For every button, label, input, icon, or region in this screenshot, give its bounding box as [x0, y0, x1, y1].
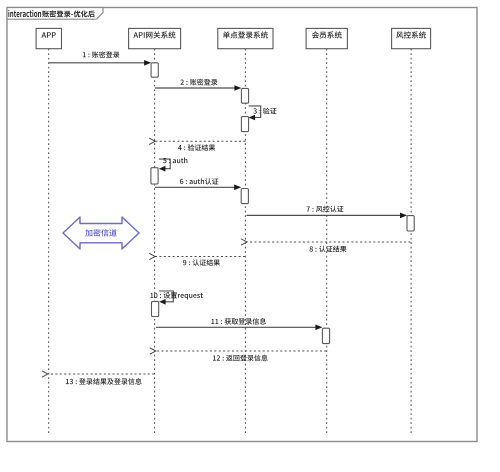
frame title tab — [7, 8, 103, 20]
lifeline 单点登录系统 — [244, 49, 246, 435]
message 4 return — [155, 140, 245, 142]
activation bar 5 — [241, 189, 248, 204]
message 12 return — [156, 350, 326, 352]
message 5 self — [159, 159, 170, 169]
frame title text — [8, 10, 41, 17]
activation bar 4 — [151, 168, 158, 184]
message 2 solid — [155, 87, 235, 89]
message 1 solid — [49, 62, 145, 64]
participant 单点登录系统 — [218, 28, 273, 48]
activation bar 1 — [151, 63, 158, 77]
message 7 solid — [247, 214, 401, 216]
participant APP — [36, 28, 61, 48]
participant API网关系统 — [129, 28, 181, 48]
activation bar 2 — [241, 88, 248, 103]
activation bar 7 — [152, 301, 159, 316]
message 6 solid — [155, 186, 235, 188]
activation bar 6 — [407, 216, 414, 231]
lifeline API网关系统 — [154, 49, 156, 435]
message 10 self — [159, 291, 173, 302]
message 3 self — [249, 106, 261, 118]
lifeline 会员系统 — [326, 49, 328, 435]
message 11 solid — [156, 326, 316, 328]
participant 会员系统 — [306, 28, 347, 48]
message 9 return — [155, 256, 245, 258]
lifeline 风控系统 — [410, 49, 412, 435]
message 13 return — [48, 373, 154, 375]
lifeline APP — [48, 49, 50, 435]
participant 风控系统 — [392, 28, 431, 48]
message 8 return — [247, 241, 411, 243]
encrypted channel double arrow — [63, 217, 139, 249]
activation bar 8 — [322, 328, 329, 343]
activation bar 3 — [241, 117, 248, 132]
